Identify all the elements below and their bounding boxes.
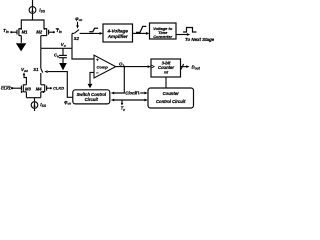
svg-text:+: +	[96, 58, 99, 63]
ramp symbol after S2	[89, 28, 98, 31]
current arrow at M2 drain	[44, 28, 47, 30]
svg-text:Vdd: Vdd	[21, 67, 28, 73]
svg-text:Counter: Counter	[158, 65, 174, 70]
wire phi_ch output to S1 control	[48, 72, 73, 98]
op-amp U1 comparator	[94, 55, 116, 78]
wire from top edge to current source I_SS	[32, 0, 34, 7]
transistor M4	[41, 84, 50, 97]
wire M2 source down to Vc line	[40, 36, 42, 49]
current arrow at M3 source	[21, 91, 24, 93]
wire top rail	[21, 20, 44, 29]
svg-text:ISS: ISS	[39, 8, 46, 14]
node T_in bullet	[10, 31, 12, 33]
wire Vc down to comparator plus input	[72, 48, 94, 59]
svg-text:Amplifier: Amplifier	[107, 34, 128, 39]
svg-text:M2: M2	[36, 29, 43, 34]
box Switch Control Circuit	[73, 90, 110, 104]
wire node Vc horizontal	[41, 47, 72, 49]
ramp symbol after amplifier	[136, 26, 146, 32]
svg-text:Clock: Clock	[125, 90, 137, 95]
svg-text:M1: M1	[22, 29, 29, 34]
wire T_p between switch control and counter control	[113, 99, 145, 101]
arrow into switch control circuit top	[88, 84, 93, 88]
svg-text:M3: M3	[25, 86, 31, 91]
wire Vc down to capacitor	[62, 48, 64, 55]
arrow into VTC	[146, 32, 149, 35]
current source I_SS (bottom)	[31, 102, 38, 109]
node T_in-bar bullet	[53, 31, 55, 33]
node CLKD bullet	[50, 87, 52, 89]
svg-text:Tp: Tp	[121, 105, 126, 111]
wire amplifier to VTC	[133, 32, 147, 34]
arrow to next stage	[187, 33, 190, 36]
svg-text:To Next Stage: To Next Stage	[185, 37, 215, 42]
T_p stub	[121, 100, 123, 103]
current arrow at M4 source	[41, 91, 44, 93]
current source I_SS (top tail source)	[29, 7, 36, 14]
svg-text:rst: rst	[164, 71, 169, 75]
transistor M2	[41, 28, 53, 36]
svg-text:φch: φch	[75, 17, 82, 22]
wire current source to rail	[32, 13, 34, 20]
arrow into counter control (T_p right)	[144, 99, 147, 102]
svg-text:Converter: Converter	[153, 34, 172, 39]
arrow into amplifier	[100, 32, 103, 35]
wire comparator minus input	[90, 72, 94, 84]
arrow into switch control right (upper)	[111, 92, 114, 95]
arrow clock into counter control	[144, 92, 147, 95]
wire counter output bus	[181, 66, 187, 68]
wire Vc down to switch S1	[40, 48, 42, 68]
svg-text:Comp: Comp	[97, 65, 109, 70]
current arrow up to V_dd	[23, 72, 26, 75]
transistor M3	[13, 84, 26, 97]
arrow into switch control (T_p left)	[111, 99, 114, 102]
arrow to Dout	[186, 65, 189, 68]
bus slash	[181, 64, 184, 69]
wire rail to current source	[34, 98, 36, 102]
ground arrow under M1	[16, 43, 26, 51]
svg-text:φch: φch	[64, 99, 71, 105]
arrow into counter	[148, 65, 151, 68]
svg-text:M4: M4	[36, 86, 42, 91]
svg-text:S2: S2	[74, 36, 80, 41]
svg-text:S1: S1	[33, 67, 39, 72]
pulse symbol	[183, 28, 197, 33]
svg-text:Tin: Tin	[56, 28, 62, 34]
clock waveform glyph	[136, 92, 140, 94]
svg-text:CLKD: CLKD	[53, 86, 64, 91]
svg-text:VC: VC	[61, 42, 67, 48]
switch S1	[41, 69, 43, 85]
svg-text:Control Circuit: Control Circuit	[156, 99, 186, 104]
ground arrow under C_H	[59, 63, 67, 70]
node CLKD-bar bullet	[11, 87, 13, 89]
svg-text:Circuit: Circuit	[85, 97, 99, 102]
control arrow phi_ch to S2	[76, 22, 79, 29]
transistor M1	[12, 28, 22, 43]
wire clock into counter control	[140, 92, 145, 94]
wire VTC to next stage	[176, 34, 188, 36]
wire O1 down to switch control	[114, 67, 124, 93]
capacitor C_H	[59, 55, 67, 63]
wire comparator output O1	[116, 66, 148, 68]
wire V_dd to M3	[24, 75, 26, 85]
svg-text:Tin: Tin	[3, 28, 9, 34]
box 3-bit Counter	[151, 59, 181, 77]
wire Vc up to switch S2	[71, 33, 73, 48]
svg-text:Dout: Dout	[192, 65, 201, 71]
box 4-Voltage Amplifier	[103, 24, 133, 42]
switch S2	[72, 30, 100, 34]
node O1 junction	[123, 66, 125, 68]
wire counter to counter control	[165, 77, 167, 88]
arrow phi_ch pointing at S1	[44, 70, 47, 73]
wire below bottom current source	[34, 108, 36, 111]
svg-text:ISS: ISS	[40, 102, 47, 108]
clock pin symbol on counter	[151, 65, 154, 68]
svg-text:Counter: Counter	[163, 91, 179, 96]
box Voltage to Time Converter	[150, 23, 177, 39]
box Counter Control Circuit	[148, 88, 194, 108]
current arrow at M1 drain	[19, 28, 22, 30]
wire tail rail M3 M4	[26, 97, 40, 99]
svg-text:−: −	[96, 70, 99, 75]
